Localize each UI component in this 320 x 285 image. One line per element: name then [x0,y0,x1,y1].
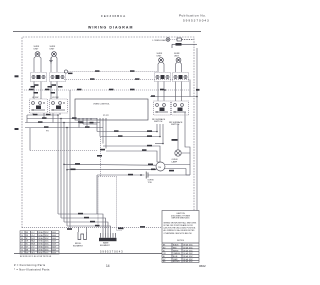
infinite switch RF [154,101,171,115]
oven control box [75,99,148,120]
oven control bottom ticks [79,118,106,120]
table cell text [21,231,57,254]
svg-text:WHITE: WHITE [173,250,179,252]
surface switch RR [173,73,189,82]
svg-text:1.2: 1.2 [21,232,23,234]
infinite switch RR [172,101,189,115]
motor wire right upper [165,164,190,166]
svg-text:LT-9: LT-9 [31,247,34,249]
svg-text:LF SW: LF SW [32,97,38,99]
bottom rule line [14,253,162,255]
notes box [162,211,199,263]
control output wire c [86,120,88,128]
L1 wire label [196,89,200,91]
svg-text:BLACK: BLACK [173,244,179,247]
wire RR left lead [176,62,178,72]
wire color code table [20,231,59,254]
row2 stub d [59,113,61,115]
frame bottom dashed [22,226,162,230]
svg-text:WIRING DIAGRAM: WIRING DIAGRAM [88,26,133,30]
svg-text:2.4: 2.4 [21,235,23,237]
motor wire left [63,163,156,165]
wire RF left lead [158,62,160,72]
svg-text:WIRING SHOWN WITH ALL SWITCHES: WIRING SHOWN WITH ALL SWITCHES [164,221,197,224]
ground symbol LR [49,58,53,63]
wire switch LF down b [40,82,42,100]
right column wire d to lamp [172,124,179,150]
wire tag a [31,86,36,88]
bus row 4 [67,225,111,233]
svg-text:SWITCH: SWITCH [171,124,180,126]
right column wire a [156,124,158,132]
wire LR right lead [56,56,58,72]
wire switch RR down a [175,82,177,102]
svg-text:LR SW: LR SW [52,97,59,99]
control output wire g [105,120,107,149]
wire LR left lead [51,56,53,72]
left riser a [57,115,59,214]
svg-text:Publication No.: Publication No. [179,14,207,18]
svg-text:18 GA. 105C: 18 GA. 105C [183,249,194,252]
wire switch LF down a [33,82,35,100]
svg-text:16 GA. 200C: 16 GA. 200C [183,252,194,255]
bus label 110 [109,89,114,91]
right feed wire [150,95,198,97]
surface unit LF [35,52,40,57]
frame left tab 2 [15,128,19,130]
runner corner vertical [29,128,31,151]
right column wire c [162,124,164,144]
row2 stub b [43,113,45,119]
wire label RD row1 [68,73,73,75]
svg-text:UNIT: UNIT [174,56,180,58]
wire 186 down [186,169,190,176]
dashed drop to cavity [100,137,102,177]
bus label 46 [45,89,50,91]
oven lamp [175,150,181,156]
bus row 2 [61,217,106,233]
riser junction a [57,114,59,116]
wire switch RF down b [163,82,165,102]
switch LR tag [52,84,57,86]
plug connector P1 [64,70,67,73]
control output wire a [78,120,80,128]
wire tag d [34,92,39,94]
merge wire row d [25,126,103,128]
svg-text:BROWN: BROWN [173,261,180,263]
riser junction b [60,118,62,120]
header rule line [13,31,201,33]
svg-text:LATCH IN THE UNLOCKED POSITION: LATCH IN THE UNLOCKED POSITION. [164,227,197,230]
svg-text:* = Non-Illustrated Parts: * = Non-Illustrated Parts [14,268,50,272]
thermal wire row [97,174,145,176]
relay wire row1 [97,130,158,132]
svg-text:SWITCH: SWITCH [154,121,163,123]
bus label 131 [130,89,135,91]
left riser b [60,119,62,219]
merge wire row b [27,117,97,119]
row2 stub c [52,113,54,123]
svg-text:BK W RD OR YL BL GY BR TN PR G: BK W RD OR YL BL GY BR TN PR GN [20,256,52,258]
main top bus L1 dashed [24,89,190,91]
relay wire row3 [103,143,164,162]
surface switch LR [50,73,66,82]
svg-text:BEFORE SERVICING: BEFORE SERVICING [172,218,190,220]
svg-text:18 GA. 105C: 18 GA. 105C [183,244,194,247]
row2 stub a [32,113,34,115]
bake connector pins [101,233,116,238]
svg-text:LAMP: LAMP [172,161,178,164]
surface switch RF [155,73,171,82]
motor TM [156,162,165,171]
svg-text:BR-8: BR-8 [31,244,35,246]
merge wire row c [25,121,100,123]
frame tab label [15,75,19,77]
wire RF right lead [163,62,165,72]
light connector [172,43,197,48]
lamp right wire [181,152,190,153]
svg-text:6.3: 6.3 [21,247,23,249]
wire LF left lead [34,56,36,72]
svg-text:4.8: 4.8 [21,241,23,243]
infinite switch LF [30,99,48,113]
wire LF right lead [39,56,41,72]
svg-text:BL: BL [26,244,28,246]
svg-text:L2-4: L2-4 [31,235,34,237]
wire L2 stub [189,80,191,97]
surface unit RF [159,58,164,63]
surface unit LR [52,52,57,57]
svg-text:GD-1: GD-1 [31,252,35,254]
control output wire e [99,120,101,137]
wire tag c [58,86,63,88]
control output wire f [102,120,104,144]
motor wire right lower [165,169,187,172]
svg-text:UNIT: UNIT [34,49,40,51]
oven cavity box top [98,176,117,178]
left riser c [63,123,65,223]
riser junction d [66,127,68,129]
motor lower-left wire [66,169,156,171]
svg-text:ELEMENT: ELEMENT [100,245,111,247]
svg-text:5995370043: 5995370043 [183,19,210,23]
merge wire row a [27,114,58,116]
bus L1 dashed upper [68,70,157,72]
svg-text:P1 P2: P1 P2 [103,115,110,117]
svg-text:OTHERWISE. SEE NOTE BELOW.: OTHERWISE. SEE NOTE BELOW. [164,233,193,235]
right column wire b [159,124,161,137]
svg-text:18 GA. 105C: 18 GA. 105C [183,260,194,263]
surface unit RR [176,58,181,63]
bake connector block [99,238,117,241]
wire switch RR down b [181,82,183,102]
svg-text:3.6: 3.6 [21,238,23,240]
wire switch LR down a [50,82,52,100]
svg-text:7.5: 7.5 [21,249,23,251]
output wire label a [80,122,84,124]
svg-text:14 GA. 105C: 14 GA. 105C [183,246,194,249]
wire label BK left bus [29,89,34,91]
wire tag e [51,92,56,94]
wire right vertical 190 [189,153,191,175]
wire b horizontal [83,123,97,125]
svg-text:14: 14 [106,264,110,268]
oven cavity box right [117,177,123,231]
svg-text:ELEMENT: ELEMENT [73,246,84,248]
svg-text:UNIT: UNIT [50,49,56,51]
oven cavity box left [97,177,99,228]
svg-text:5995370043: 5995370043 [100,250,123,254]
switch LF tag [34,84,39,86]
wire light to switch [170,39,177,41]
wire row4 with label [100,149,160,162]
svg-text:BL: BL [163,256,165,258]
bus row 3 [64,221,108,233]
svg-text:# = Functioning Parts: # = Functioning Parts [14,263,46,267]
light switch [177,38,194,41]
cavity drop label [97,155,102,157]
left riser d [66,128,68,227]
oven light B1 [166,38,170,42]
svg-text:L1-2: L1-2 [31,232,34,234]
svg-text:ORANGE: ORANGE [173,252,181,255]
svg-text:TM-7: TM-7 [31,249,35,251]
thermal limiter TOD [146,172,190,179]
left riser e [69,90,71,227]
control output wire d [96,120,98,132]
surface switch LF [31,73,47,82]
svg-text:FEF336BCA: FEF336BCA [101,14,126,18]
wire corner to frame [185,141,190,152]
svg-text:N-12: N-12 [31,238,35,240]
svg-text:# OVEN LIGHT: # OVEN LIGHT [152,40,167,42]
svg-text:18 GA. 105C: 18 GA. 105C [183,255,194,258]
cabinet dashed frame [22,37,194,228]
svg-text:5.1: 5.1 [21,244,23,246]
wire switch LR down b [56,82,58,100]
bus L2 dashed lower [64,78,190,80]
bus row 1 [58,213,103,233]
bus junction right [160,89,166,91]
wire RR right lead [180,62,182,72]
wire tag b [48,86,53,88]
broil element riser b [86,227,88,232]
svg-text:IN THE OFF POSITION AND DOOR: IN THE OFF POSITION AND DOOR [164,224,194,227]
svg-text:8.7: 8.7 [21,252,23,254]
wire switch RF down a [157,82,159,102]
svg-text:BA-6: BA-6 [31,240,35,243]
notes table text [163,244,194,264]
broil element riser a [78,227,80,232]
broil element [78,232,86,240]
infinite switch LR [50,99,68,113]
riser junction c [63,122,65,124]
cavity wire from runner [96,175,98,214]
relay wire row2 [100,135,161,137]
svg-text:ALL WIRING 18 GA. UNLESS NOTED: ALL WIRING 18 GA. UNLESS NOTED [164,229,196,232]
wire RR to corner [184,112,186,141]
merge vertical a [26,115,28,123]
svg-text:0602: 0602 [199,264,206,268]
svg-text:TOD: TOD [148,182,153,184]
control output wire b [82,120,84,124]
output wire label b [90,122,94,124]
right side wire L1 vertical [196,48,198,213]
dashed runner y150 [30,150,98,152]
notes table grid [162,243,199,263]
svg-text:OVEN CONTROL: OVEN CONTROL [93,104,110,106]
svg-text:TM: TM [158,167,161,169]
bus label 78 [77,89,82,91]
svg-text:NOTES: NOTES [177,240,185,242]
svg-text:UNIT: UNIT [157,56,163,58]
